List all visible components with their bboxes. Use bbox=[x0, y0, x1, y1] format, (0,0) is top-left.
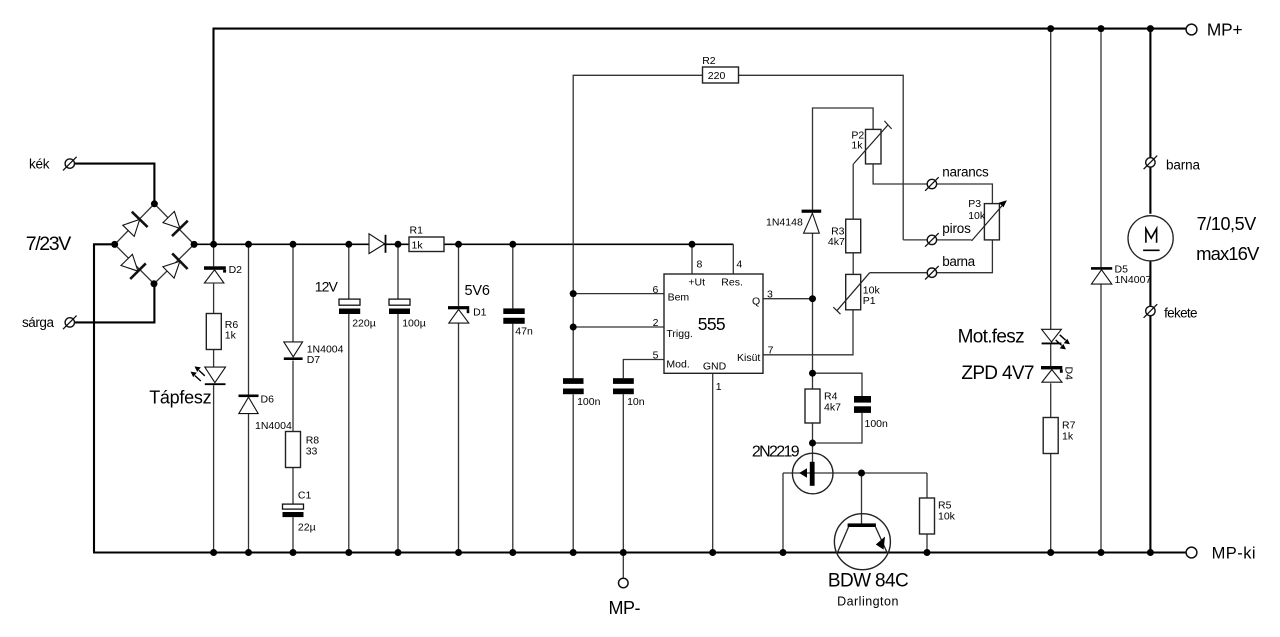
svg-text:barna: barna bbox=[942, 254, 975, 269]
svg-text:1k: 1k bbox=[851, 139, 863, 151]
bridge diode top-left bbox=[123, 212, 148, 237]
svg-text:4k7: 4k7 bbox=[828, 236, 845, 248]
bridge diode top-right bbox=[163, 211, 188, 236]
resistor R6 bbox=[206, 314, 221, 350]
svg-text:Tápfesz: Tápfesz bbox=[149, 388, 211, 408]
node Q and R4 dots bbox=[809, 295, 865, 476]
LED Mot.fesz bbox=[1042, 329, 1070, 349]
wire kék input bbox=[75, 164, 154, 204]
svg-text:Res.: Res. bbox=[721, 277, 743, 289]
terminal barna motor bbox=[1144, 156, 1158, 170]
terminal piros bbox=[925, 233, 939, 247]
diode D5 bbox=[1091, 267, 1112, 284]
svg-text:D4: D4 bbox=[1063, 367, 1075, 381]
svg-text:MP-ki: MP-ki bbox=[1212, 544, 1256, 562]
wire top rail MP+ bbox=[214, 29, 1187, 245]
zener D4 ZPD4V7 bbox=[1041, 366, 1062, 382]
svg-text:1k: 1k bbox=[225, 330, 237, 342]
svg-text:4: 4 bbox=[736, 258, 742, 270]
svg-text:R2: R2 bbox=[702, 55, 716, 67]
svg-text:22µ: 22µ bbox=[298, 522, 316, 534]
resistor R4 bbox=[805, 389, 820, 423]
wire bottom rail MP-ki bbox=[93, 551, 1186, 553]
svg-text:Kisüt: Kisüt bbox=[737, 352, 760, 364]
wire BDW base bbox=[861, 473, 863, 524]
svg-text:1N4004: 1N4004 bbox=[255, 420, 292, 432]
svg-text:Mod.: Mod. bbox=[666, 358, 689, 370]
bridge diode bottom-right bbox=[163, 253, 188, 278]
resistor R5 bbox=[920, 498, 935, 534]
svg-text:barna: barna bbox=[1166, 158, 1200, 173]
wire pin2 bbox=[573, 326, 664, 328]
svg-text:MP-: MP- bbox=[609, 598, 641, 618]
capacitor C1 bbox=[283, 504, 304, 517]
node 555 input dots bbox=[570, 290, 577, 330]
diode 1N4148 bbox=[802, 210, 822, 234]
wire D7 R8 C1 branch bbox=[292, 244, 294, 552]
potentiometer P2 bbox=[854, 121, 892, 164]
terminal barna bbox=[925, 266, 939, 280]
svg-text:P1: P1 bbox=[863, 295, 876, 307]
terminal MP+ bbox=[1186, 24, 1197, 35]
svg-text:Mot.fesz: Mot.fesz bbox=[958, 326, 1025, 347]
potentiometer P1 bbox=[833, 273, 869, 315]
wire pin4 bbox=[732, 244, 734, 274]
wire 47n branch bbox=[512, 244, 514, 552]
wire 100u branch bbox=[397, 244, 399, 552]
svg-text:7/23V: 7/23V bbox=[26, 233, 72, 255]
bridge diode bottom-left bbox=[121, 254, 146, 279]
diode D6 bbox=[239, 395, 259, 414]
svg-text:7: 7 bbox=[768, 345, 774, 357]
svg-text:narancs: narancs bbox=[942, 165, 989, 180]
wire D6 branch bbox=[248, 244, 250, 552]
capacitor 100n right bbox=[854, 396, 871, 413]
wire Q node down through R4 bbox=[812, 299, 814, 462]
wire barna line to P3 bottom bbox=[870, 240, 993, 273]
svg-text:kék: kék bbox=[29, 156, 50, 171]
svg-text:4k7: 4k7 bbox=[824, 402, 841, 414]
wire sárga input bbox=[75, 284, 154, 323]
svg-text:P3: P3 bbox=[968, 198, 981, 210]
wire 220u branch bbox=[348, 244, 350, 552]
resistor R1 bbox=[409, 237, 444, 252]
svg-text:piros: piros bbox=[942, 221, 971, 236]
capacitor 10n bbox=[613, 378, 634, 394]
svg-text:1k: 1k bbox=[412, 240, 424, 252]
terminal MP- bbox=[619, 578, 629, 588]
bridge rectifier diamond bbox=[115, 204, 194, 284]
wire P2 to narancs to P3 bbox=[873, 164, 992, 204]
svg-text:sárga: sárga bbox=[22, 315, 54, 330]
node bottom rail dots bbox=[210, 549, 1154, 556]
svg-text:GND: GND bbox=[703, 361, 727, 373]
wire 100n right cap branch bbox=[813, 373, 863, 443]
svg-text:Bem: Bem bbox=[668, 292, 690, 304]
svg-text:2: 2 bbox=[653, 317, 659, 329]
capacitor 47n bbox=[503, 308, 524, 323]
svg-text:6: 6 bbox=[653, 284, 659, 296]
wire pin5 and 10n to MP- bbox=[623, 360, 664, 578]
svg-text:8: 8 bbox=[697, 258, 703, 270]
wire P2 wiper to R3 bbox=[852, 164, 854, 219]
motor M bbox=[1128, 216, 1173, 261]
wire pin8 bbox=[691, 244, 693, 274]
svg-text:D6: D6 bbox=[261, 394, 275, 406]
svg-text:+Ut: +Ut bbox=[688, 277, 705, 289]
LED Tápfesz bbox=[191, 366, 226, 384]
svg-text:1N4007: 1N4007 bbox=[1115, 274, 1152, 286]
wire D2 R6 LED branch bbox=[213, 244, 215, 552]
terminal MP-ki bbox=[1186, 547, 1197, 558]
svg-text:max16V: max16V bbox=[1196, 243, 1260, 264]
resistor R2 bbox=[703, 67, 739, 83]
wire pin1 GND bbox=[712, 373, 714, 552]
wire motor branch bbox=[1149, 29, 1151, 553]
svg-text:5V6: 5V6 bbox=[465, 283, 491, 299]
zener D2 bbox=[204, 266, 226, 283]
wire mid supply rail bbox=[194, 243, 733, 245]
svg-text:10n: 10n bbox=[627, 396, 645, 408]
svg-text:3: 3 bbox=[767, 289, 773, 301]
capacitor 100u bbox=[389, 299, 410, 314]
svg-text:D7: D7 bbox=[307, 354, 321, 366]
wire Mot.fesz branch bbox=[1050, 29, 1052, 553]
svg-text:fekete: fekete bbox=[1164, 306, 1197, 321]
wire R2 right to piros bbox=[739, 75, 904, 240]
node bridge corner dots bbox=[111, 200, 197, 287]
svg-text:33: 33 bbox=[306, 446, 318, 458]
svg-text:1k: 1k bbox=[1062, 431, 1074, 443]
svg-text:100µ: 100µ bbox=[402, 318, 426, 330]
svg-text:100n: 100n bbox=[865, 418, 889, 430]
svg-text:10k: 10k bbox=[938, 511, 956, 523]
svg-text:Darlington: Darlington bbox=[837, 595, 898, 609]
svg-text:220µ: 220µ bbox=[352, 318, 376, 330]
potentiometer P3 bbox=[972, 200, 1007, 241]
terminal fekete bbox=[1144, 304, 1158, 318]
svg-text:D2: D2 bbox=[229, 264, 243, 276]
terminal narancs bbox=[925, 177, 939, 191]
capacitor 220u bbox=[339, 299, 360, 314]
svg-text:220: 220 bbox=[708, 70, 726, 82]
svg-text:7/10,5V: 7/10,5V bbox=[1197, 214, 1257, 234]
wire D5 branch bbox=[1100, 29, 1102, 553]
svg-text:R1: R1 bbox=[410, 224, 424, 236]
wire pin6 bbox=[573, 293, 664, 295]
svg-text:C1: C1 bbox=[298, 490, 312, 502]
svg-text:ZPD 4V7: ZPD 4V7 bbox=[961, 363, 1034, 384]
wire bridge minus to bottom rail bbox=[94, 244, 115, 551]
svg-text:BDW 84C: BDW 84C bbox=[828, 571, 909, 592]
node junction dots top rail bbox=[1047, 25, 1154, 32]
zener D1 bbox=[448, 306, 469, 323]
resistor R7 bbox=[1043, 418, 1058, 454]
svg-text:100n: 100n bbox=[577, 396, 601, 408]
diode D7 bbox=[284, 342, 303, 360]
svg-text:47n: 47n bbox=[515, 326, 533, 338]
diode rectifier series bbox=[369, 234, 386, 254]
transistor Q2 BDW84C bbox=[834, 514, 890, 570]
svg-text:Trigg.: Trigg. bbox=[666, 328, 692, 340]
wire 1N4148 branch bbox=[813, 108, 874, 299]
wire D1 branch bbox=[458, 244, 460, 552]
op-amp U1 555 box bbox=[664, 274, 763, 373]
transistor Q1 2N2219 bbox=[792, 453, 833, 494]
wire R2 loop left bbox=[573, 75, 702, 552]
svg-text:1N4148: 1N4148 bbox=[766, 217, 803, 229]
resistor R8 bbox=[286, 432, 301, 468]
terminal kék bbox=[63, 157, 77, 171]
wire 2N2219 emitter base bbox=[783, 473, 927, 553]
svg-text:12V: 12V bbox=[315, 278, 339, 294]
wire R3 to P1 bbox=[852, 253, 854, 275]
resistor R3 bbox=[846, 219, 861, 253]
wire pin3 Q bbox=[763, 298, 813, 300]
svg-text:D1: D1 bbox=[473, 307, 487, 319]
svg-text:Q: Q bbox=[752, 296, 760, 308]
svg-text:1: 1 bbox=[716, 381, 722, 393]
svg-text:5: 5 bbox=[653, 349, 659, 361]
capacitor 100n left bbox=[563, 378, 584, 394]
wire pin7 Kisüt to P1 bbox=[763, 310, 853, 355]
svg-text:MP+: MP+ bbox=[1207, 19, 1243, 39]
wire piros line bbox=[903, 239, 971, 241]
terminal sárga bbox=[63, 316, 77, 330]
svg-text:555: 555 bbox=[698, 314, 726, 334]
svg-text:2N2219: 2N2219 bbox=[752, 444, 800, 461]
node junction dots mid rail bbox=[210, 241, 695, 248]
